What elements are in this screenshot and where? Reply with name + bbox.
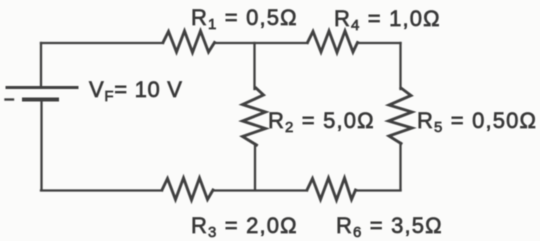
wire left-lower (battery to bottom corner) xyxy=(40,101,42,190)
wire bottom-middle (R3 to R6 through node) xyxy=(213,189,307,191)
wire middle-upper (top node down to R2) xyxy=(253,43,255,89)
wire right-upper (corner down to R5) xyxy=(399,43,401,89)
svg-text:VF= 10 V: VF= 10 V xyxy=(89,77,183,105)
svg-text:R2 = 5,0Ω: R2 = 5,0Ω xyxy=(268,108,375,136)
wire top-middle (R1 to R4 through node) xyxy=(215,42,308,44)
resistor R2 xyxy=(243,88,266,145)
resistor R5 xyxy=(389,88,413,144)
svg-text:R1 = 0,5Ω: R1 = 0,5Ω xyxy=(191,5,298,33)
wire bottom-right (R6 to bottom-right corner) xyxy=(356,189,401,191)
battery VF positive plate xyxy=(7,86,77,89)
battery minus polarity mark xyxy=(6,98,14,100)
svg-text:R3 = 2,0Ω: R3 = 2,0Ω xyxy=(191,213,298,241)
resistor R3 xyxy=(162,178,213,200)
wire left-upper (top corner to battery) xyxy=(40,43,42,86)
wire top-right (R4 to right corner) xyxy=(358,42,401,44)
svg-text:R4 = 1,0Ω: R4 = 1,0Ω xyxy=(334,6,441,34)
resistor R6 xyxy=(307,178,356,200)
svg-text:R6 = 3,5Ω: R6 = 3,5Ω xyxy=(336,213,443,241)
battery VF negative plate xyxy=(24,98,57,102)
wire right-lower (R5 down to bottom corner) xyxy=(399,143,401,190)
wire bottom-left (corner to R3) xyxy=(41,189,162,191)
resistor R1 xyxy=(163,31,215,53)
resistor R4 xyxy=(308,31,358,53)
wire middle-lower (R2 down to bottom node) xyxy=(254,144,256,190)
wire top-left (battery + to R1) xyxy=(41,42,163,44)
